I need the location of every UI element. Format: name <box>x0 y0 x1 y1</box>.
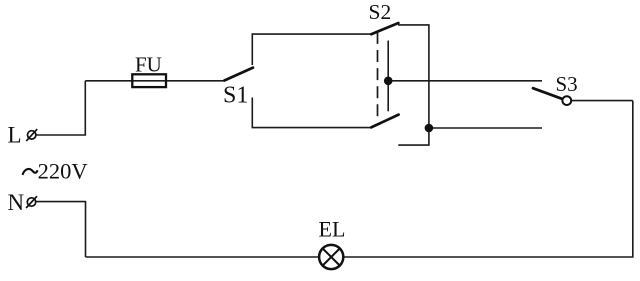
svg-text:L: L <box>8 123 22 148</box>
svg-text:220V: 220V <box>38 159 88 184</box>
svg-text:EL: EL <box>319 217 346 242</box>
svg-text:S1: S1 <box>223 83 248 109</box>
svg-text:S2: S2 <box>369 0 392 24</box>
svg-text:N: N <box>8 190 25 215</box>
svg-text:FU: FU <box>135 53 162 77</box>
svg-text:S3: S3 <box>556 72 578 96</box>
